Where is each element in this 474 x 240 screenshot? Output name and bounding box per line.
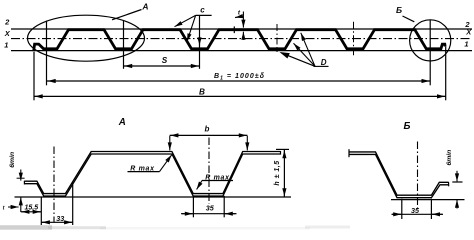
svg-text:А: А <box>118 117 126 128</box>
svg-text:15,5: 15,5 <box>24 205 38 212</box>
svg-text:t: t <box>238 10 241 17</box>
svg-text:Б: Б <box>396 5 402 15</box>
svg-text:33: 33 <box>56 214 64 223</box>
svg-text:c: c <box>200 6 205 15</box>
svg-text:X: X <box>465 28 472 37</box>
svg-text:R max: R max <box>205 174 230 181</box>
svg-text:B: B <box>199 87 205 96</box>
svg-text:6min: 6min <box>9 152 16 168</box>
svg-text:35: 35 <box>206 203 215 212</box>
svg-text:t: t <box>3 206 6 212</box>
svg-text:D: D <box>321 58 327 67</box>
svg-text:А: А <box>141 2 148 12</box>
svg-text:S: S <box>162 56 168 65</box>
svg-text:B1 = 1000±δ: B1 = 1000±δ <box>214 73 265 82</box>
svg-text:1: 1 <box>4 40 8 49</box>
svg-text:h ± 1,5: h ± 1,5 <box>274 160 281 185</box>
svg-text:2: 2 <box>4 18 10 27</box>
svg-text:Б: Б <box>404 121 411 132</box>
svg-text:35: 35 <box>411 206 420 215</box>
svg-text:1: 1 <box>464 40 468 49</box>
svg-text:R max: R max <box>130 166 155 173</box>
svg-text:b: b <box>205 125 210 134</box>
svg-text:X: X <box>4 29 11 38</box>
svg-text:6min: 6min <box>446 150 453 166</box>
